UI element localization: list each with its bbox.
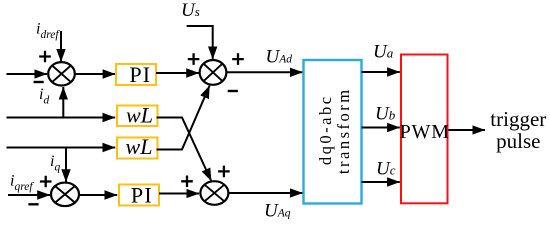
minus sign below right of summer S2 xyxy=(228,90,238,92)
minus sign at summer S1 xyxy=(34,81,44,83)
svg-text:iq: iq xyxy=(50,153,60,174)
svg-text:iqref: iqref xyxy=(10,173,34,194)
plus sign left of summer S4 xyxy=(181,176,193,188)
block wL2 xyxy=(117,134,158,159)
wire S4 to dq0 block (U_Aq) xyxy=(228,192,302,194)
wire Us xyxy=(187,26,213,59)
wire Ub xyxy=(362,127,400,129)
summer S4 xyxy=(200,181,228,205)
wire row3 input xyxy=(7,147,116,149)
block dq0-abc transform xyxy=(304,60,362,204)
wire S3 to PI2 xyxy=(79,194,117,196)
plus sign right of summer S2 xyxy=(232,53,244,65)
minus sign at summer S3 xyxy=(28,203,38,205)
svg-text:Us: Us xyxy=(181,0,200,21)
block PI2 xyxy=(119,183,159,208)
svg-text:dq0-abc: dq0-abc xyxy=(316,94,335,165)
wire row1 input xyxy=(7,73,48,75)
wire i_d feedback tap xyxy=(62,87,64,118)
wire PWM output xyxy=(449,129,486,131)
wire wL1 to S4 (cross diagonal down) xyxy=(157,118,212,182)
block PWM xyxy=(400,55,450,204)
wire PI2 to S4 xyxy=(159,193,199,195)
summer S1 xyxy=(48,62,75,85)
wire Uc xyxy=(362,181,400,183)
wire wL2 to S2 (cross diagonal up) xyxy=(157,86,210,150)
wire S2 to dq0 block (U_Ad) xyxy=(226,71,302,73)
wire row4 input xyxy=(8,194,50,196)
svg-text:pulse: pulse xyxy=(496,129,540,153)
svg-text:idref: idref xyxy=(36,21,60,42)
svg-text:id: id xyxy=(39,86,49,107)
wire row2 input xyxy=(7,117,116,119)
svg-text:wL: wL xyxy=(126,103,153,128)
wire Ua xyxy=(362,71,400,73)
summer S2 xyxy=(200,60,227,85)
plus sign top right of summer S4 xyxy=(218,166,230,178)
wire S1 to PI1 xyxy=(75,73,116,75)
block wL1 xyxy=(117,103,158,128)
svg-text:Ub: Ub xyxy=(375,104,396,125)
svg-text:PI: PI xyxy=(131,183,153,208)
plus sign at summer S3 xyxy=(40,176,52,188)
label trigger pulse xyxy=(490,107,546,153)
svg-text:PI: PI xyxy=(129,62,151,87)
plus sign left of summer S2 xyxy=(188,53,200,65)
wire PI1 to S2 xyxy=(156,72,199,74)
svg-text:PWM: PWM xyxy=(400,121,450,143)
svg-text:trigger: trigger xyxy=(490,107,546,131)
summer S3 xyxy=(51,183,79,207)
block PI1 xyxy=(116,62,156,87)
wire i_q feedback tap xyxy=(65,148,67,182)
svg-text:UAq: UAq xyxy=(264,201,291,222)
svg-text:UAd: UAd xyxy=(266,47,293,68)
svg-text:Uc: Uc xyxy=(376,159,396,180)
plus sign at summer S1 xyxy=(39,51,51,63)
svg-text:transform: transform xyxy=(334,87,353,174)
wire i_dref drop xyxy=(60,31,62,62)
svg-text:wL: wL xyxy=(126,134,153,159)
svg-text:Ua: Ua xyxy=(373,42,394,63)
